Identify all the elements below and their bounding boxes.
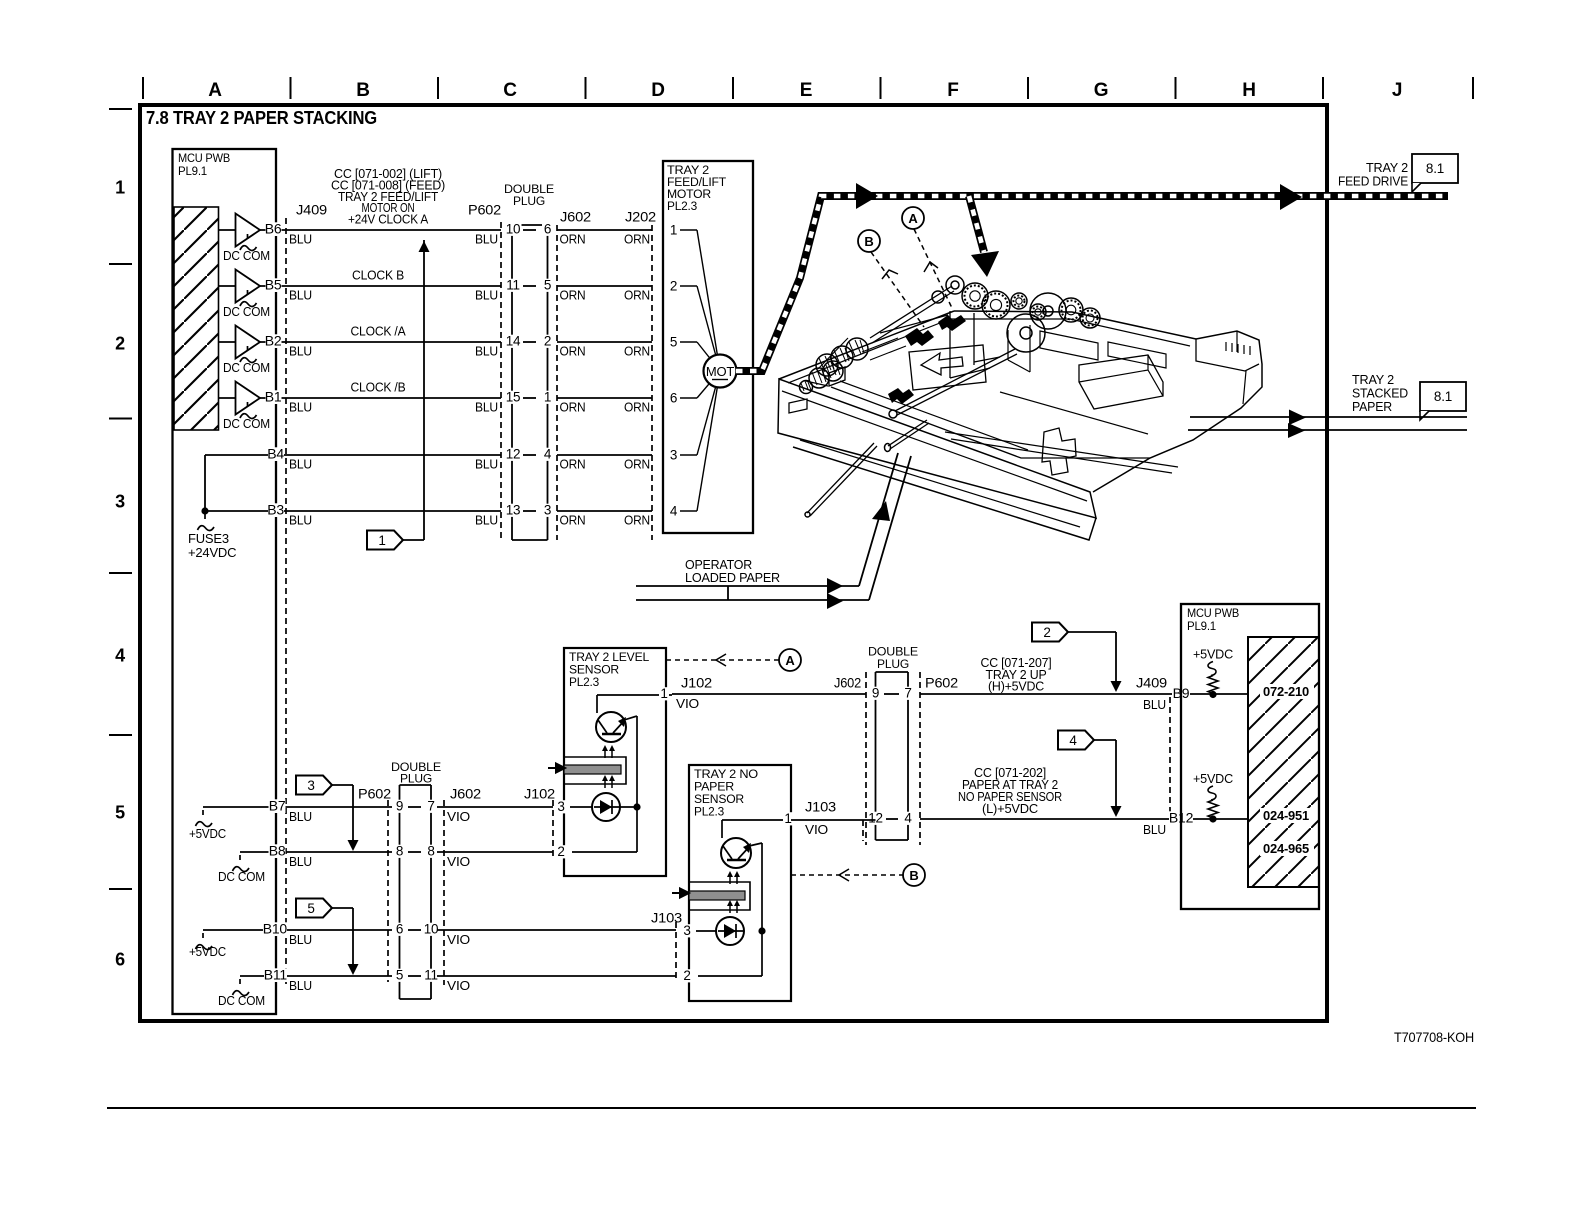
plug pin 9 xyxy=(870,687,881,700)
svg-text:8: 8 xyxy=(396,844,403,859)
svg-text:4: 4 xyxy=(115,646,125,666)
tray latch piece xyxy=(1042,428,1076,475)
tray 2 level sensor box xyxy=(564,648,666,876)
svg-text:MCU PWB: MCU PWB xyxy=(178,153,231,165)
svg-text:3: 3 xyxy=(683,923,690,938)
plug pin 4 xyxy=(903,812,914,825)
svg-text:TRAY 2: TRAY 2 xyxy=(667,165,709,177)
dashed leader from no paper sensor to B xyxy=(791,874,903,876)
svg-text:PL2.3: PL2.3 xyxy=(569,677,599,689)
svg-text:B6: B6 xyxy=(265,221,282,237)
tray engraved arrow plate xyxy=(909,345,986,390)
svg-text:CLOCK /B: CLOCK /B xyxy=(351,380,406,395)
svg-text:7: 7 xyxy=(904,686,911,701)
no paper sensor internal wire xyxy=(761,843,763,976)
svg-text:BLU: BLU xyxy=(475,400,498,415)
svg-text:8.1: 8.1 xyxy=(1426,161,1444,176)
belt arrowhead down at tray xyxy=(971,251,999,277)
svg-text:+5VDC: +5VDC xyxy=(1193,647,1233,662)
svg-text:J409: J409 xyxy=(1136,675,1167,691)
svg-text:PL2.3: PL2.3 xyxy=(694,807,724,819)
svg-text:2: 2 xyxy=(557,844,564,859)
level sensor pin 1 wire xyxy=(597,694,672,696)
svg-text:14: 14 xyxy=(506,334,521,349)
connector J602 dashed (right) xyxy=(865,672,867,845)
row grid tick marks xyxy=(109,108,132,110)
svg-text:DC COM: DC COM xyxy=(218,993,265,1008)
svg-text:+24V CLOCK A: +24V CLOCK A xyxy=(348,213,429,227)
wire ORN row 2 xyxy=(557,285,652,287)
flow path diagonal (lower) xyxy=(869,456,911,600)
svg-text:BLU: BLU xyxy=(289,809,312,824)
wire B7 BLU xyxy=(292,806,392,808)
pin label B6 xyxy=(266,222,282,236)
level sensor pin 2 xyxy=(556,845,566,858)
svg-text:1: 1 xyxy=(544,390,551,405)
svg-text:FEED DRIVE: FEED DRIVE xyxy=(1338,174,1408,189)
double plug pins 9-7 xyxy=(394,800,405,813)
MCU PWB PL9.1 box (right) xyxy=(1181,604,1319,909)
no paper sensor pin 3 xyxy=(682,924,692,937)
wire ORN row 1 xyxy=(557,229,652,231)
footer rule line xyxy=(107,1107,1476,1109)
belt arrow 2 xyxy=(1280,184,1302,210)
connector J602 dashed line (upper) xyxy=(556,225,558,540)
svg-text:ORN: ORN xyxy=(624,513,650,528)
double plug pins 6-10 xyxy=(394,923,405,936)
svg-text:+5VDC: +5VDC xyxy=(189,826,226,841)
tray left rim xyxy=(779,311,954,379)
flag 3 (tray 2 up return) xyxy=(296,776,332,795)
svg-text:3: 3 xyxy=(307,778,314,793)
svg-text:FUSE3: FUSE3 xyxy=(188,531,229,546)
svg-text:ORN: ORN xyxy=(560,344,586,359)
svg-text:J: J xyxy=(1392,80,1402,101)
leader dashed line B xyxy=(871,252,924,327)
wire B4 BLU xyxy=(205,454,501,456)
leader dashed line A xyxy=(914,229,952,308)
drop wire from flag 2 xyxy=(1115,632,1117,687)
tray right raised box xyxy=(1079,355,1163,409)
pin label B9 xyxy=(1172,687,1190,701)
svg-text:PL2.3: PL2.3 xyxy=(667,201,697,213)
svg-text:12: 12 xyxy=(506,447,521,462)
stacked paper flow lines xyxy=(1190,416,1467,418)
svg-text:024-965: 024-965 xyxy=(1263,842,1309,856)
main diagram border frame xyxy=(140,105,1327,1021)
svg-text:PLUG: PLUG xyxy=(877,657,909,671)
svg-text:PLUG: PLUG xyxy=(400,772,432,786)
belt branch down to tray xyxy=(969,196,984,252)
drop wire from flag 5 xyxy=(352,908,354,972)
svg-text:2: 2 xyxy=(115,334,125,354)
svg-text:072-210: 072-210 xyxy=(1263,685,1309,699)
drop wire from flag 3 xyxy=(352,785,354,848)
svg-text:PAPER: PAPER xyxy=(1352,399,1392,414)
stacked paper arrows xyxy=(1289,410,1306,426)
double plug pins 10-6 xyxy=(505,223,522,236)
svg-text:10: 10 xyxy=(424,922,439,937)
no paper sensor pin 2 xyxy=(682,969,692,982)
svg-text:B1: B1 xyxy=(265,389,282,405)
svg-text:VIO: VIO xyxy=(805,822,828,837)
arrowhead up into B6 wire xyxy=(419,241,430,252)
level sensor pin2 internal wire xyxy=(572,851,637,853)
svg-text:BLU: BLU xyxy=(1143,697,1166,712)
MCU PWB hatched area xyxy=(174,207,219,430)
svg-text:5: 5 xyxy=(396,968,403,983)
svg-text:BLU: BLU xyxy=(475,344,498,359)
motor pin 2 xyxy=(680,285,697,287)
svg-text:BLU: BLU xyxy=(289,978,312,993)
wire VIO to J103 pin3 xyxy=(437,929,676,931)
tray 2 feed drive flow path (checkered belt) xyxy=(736,196,1448,371)
tray interior rib lines xyxy=(800,440,1080,527)
connector P602 dashed line (upper) xyxy=(500,222,502,540)
tray 2 feed/lift motor box xyxy=(663,161,753,533)
level sensor pin 3 xyxy=(556,800,566,813)
double plug pins 14-2 xyxy=(505,335,522,348)
level sensor photo-interrupter bar xyxy=(564,757,626,784)
svg-text:E: E xyxy=(800,80,812,101)
svg-text:A: A xyxy=(208,80,222,101)
svg-text:B2: B2 xyxy=(265,333,282,349)
junction node FUSE3 xyxy=(201,507,208,514)
reference tag 8.1 (stacked paper) xyxy=(1420,382,1466,411)
svg-text:(H)+5VDC: (H)+5VDC xyxy=(988,680,1044,694)
wire VIO no paper sensor pin1 xyxy=(791,819,876,821)
svg-text:SENSOR: SENSOR xyxy=(569,665,619,677)
svg-text:A: A xyxy=(785,653,795,668)
pin label B1 xyxy=(266,390,282,404)
DC COM at B8 xyxy=(240,851,292,853)
svg-text:B11: B11 xyxy=(264,967,288,983)
flow arrows xyxy=(827,578,843,594)
flag 1 (+24V CLOCK A feed) xyxy=(367,531,403,550)
svg-text:B4: B4 xyxy=(267,446,284,462)
svg-text:5: 5 xyxy=(307,901,314,916)
double plug pins 12-4 xyxy=(505,448,522,461)
svg-text:BLU: BLU xyxy=(289,932,312,947)
svg-text:1: 1 xyxy=(378,533,385,548)
svg-text:B5: B5 xyxy=(265,277,282,293)
svg-text:DC COM: DC COM xyxy=(223,416,270,431)
double plug pins 13-3 xyxy=(505,504,522,517)
svg-text:ORN: ORN xyxy=(560,457,586,472)
svg-text:A: A xyxy=(908,211,918,226)
no paper sensor LED diode xyxy=(716,917,744,945)
svg-text:J202: J202 xyxy=(625,209,656,225)
svg-text:PAPER: PAPER xyxy=(694,782,734,794)
svg-text:FEED/LIFT: FEED/LIFT xyxy=(667,177,726,189)
wire B10 BLU xyxy=(292,929,392,931)
pin label B7 xyxy=(269,799,286,813)
wire B1 BLU from MCU to P602 xyxy=(260,397,501,399)
+5VDC source at B10 xyxy=(203,929,292,931)
svg-text:4: 4 xyxy=(544,447,552,462)
svg-text:BLU: BLU xyxy=(289,457,312,472)
svg-text:B: B xyxy=(356,80,370,101)
svg-text:J409: J409 xyxy=(296,202,327,218)
DC COM return symbol at B6 xyxy=(240,234,257,251)
svg-text:3: 3 xyxy=(670,448,677,463)
tray 2 no paper sensor box xyxy=(689,765,791,1001)
svg-text:VIO: VIO xyxy=(676,696,699,711)
svg-text:8.1: 8.1 xyxy=(1434,389,1452,404)
svg-text:2: 2 xyxy=(670,279,677,294)
wire VIO level sensor pin1 to J602 xyxy=(672,693,866,695)
inner shaft to pickup xyxy=(895,349,1017,415)
svg-text:2: 2 xyxy=(1043,625,1050,640)
double plug pins 5-11 xyxy=(394,969,405,982)
svg-text:11: 11 xyxy=(424,968,438,983)
flag 5 (no paper return) xyxy=(296,899,332,918)
svg-text:ORN: ORN xyxy=(624,344,650,359)
double plug (right) bracket xyxy=(876,671,909,673)
svg-text:+5VDC: +5VDC xyxy=(189,944,226,959)
svg-text:9: 9 xyxy=(396,799,403,814)
svg-text:MCU PWB: MCU PWB xyxy=(1187,608,1240,620)
tray front wall xyxy=(778,379,1096,518)
svg-text:ORN: ORN xyxy=(624,288,650,303)
svg-text:PL9.1: PL9.1 xyxy=(178,166,207,178)
svg-text:3: 3 xyxy=(544,503,551,518)
connector J103 dashed xyxy=(675,922,677,982)
svg-text:B10: B10 xyxy=(263,921,288,937)
actuator arrow into level sensor xyxy=(548,764,565,773)
motor pin 1 xyxy=(680,229,697,231)
svg-text:4: 4 xyxy=(904,811,912,826)
connector J102 dashed xyxy=(552,800,554,860)
svg-text:BLU: BLU xyxy=(475,232,498,247)
tray center compartment edges xyxy=(1008,325,1030,372)
callout circle A (schematic) xyxy=(779,649,801,671)
svg-text:J102: J102 xyxy=(681,675,712,691)
wire BLU P602 to B12 xyxy=(920,818,1248,820)
motor MOT symbol xyxy=(704,355,737,388)
svg-text:BLU: BLU xyxy=(289,400,312,415)
svg-text:J602: J602 xyxy=(450,786,481,802)
pickup roller cluster xyxy=(846,338,868,360)
callout circle B xyxy=(858,230,880,252)
svg-text:4: 4 xyxy=(670,504,678,519)
level sensor phototransistor Q xyxy=(596,712,626,742)
svg-text:3: 3 xyxy=(557,799,564,814)
wire B5 BLU from MCU to P602 xyxy=(260,285,501,287)
arrowhead into B9 wire xyxy=(1111,681,1122,692)
motor pin 3 xyxy=(680,454,697,456)
motor pin 4 xyxy=(680,510,697,512)
DC COM return symbol at B5 xyxy=(240,290,257,307)
indicator rod upper xyxy=(888,420,929,449)
no paper sensor pin 1 xyxy=(783,812,793,825)
DC COM at B11 xyxy=(240,975,292,977)
pin label B3 xyxy=(268,503,284,517)
svg-text:BLU: BLU xyxy=(289,344,312,359)
tray 2 illustration xyxy=(778,276,1262,540)
tray base foot xyxy=(793,447,1096,540)
svg-text:ORN: ORN xyxy=(560,288,586,303)
no paper sensor pin2 internal wire xyxy=(698,975,762,977)
connector J409 dashed line (left) xyxy=(285,218,287,985)
flow path diagonal (upper) xyxy=(859,453,898,586)
svg-text:5: 5 xyxy=(115,803,125,823)
svg-text:D: D xyxy=(651,80,665,101)
connector P602 dashed (lower) xyxy=(387,800,389,982)
double plug (lower) bracket xyxy=(400,784,432,786)
indicator rod lower xyxy=(807,443,877,516)
wire B11 BLU xyxy=(292,975,392,977)
svg-text:B: B xyxy=(864,234,873,249)
svg-text:TRAY 2 NO: TRAY 2 NO xyxy=(694,769,758,781)
buffer driver for B6 xyxy=(218,229,236,231)
operator loaded paper flow path xyxy=(636,585,859,587)
svg-text:J602: J602 xyxy=(560,209,591,225)
svg-text:BLU: BLU xyxy=(289,513,312,528)
svg-text:9: 9 xyxy=(872,686,879,701)
DC COM return symbol at B1 xyxy=(240,402,257,419)
svg-text:PLUG: PLUG xyxy=(513,194,545,208)
tray rail comb teeth xyxy=(1226,342,1250,355)
svg-text:B8: B8 xyxy=(269,843,286,859)
svg-text:+24VDC: +24VDC xyxy=(188,545,236,560)
svg-text:1: 1 xyxy=(660,686,667,701)
svg-text:6: 6 xyxy=(670,391,677,406)
level sensor pin 1 xyxy=(659,687,669,700)
svg-text:J103: J103 xyxy=(805,799,836,815)
connector J103 dashed (pin1) xyxy=(862,820,864,841)
wire ORN row 6 xyxy=(557,510,652,512)
tray inner tower xyxy=(950,311,1000,378)
buffer driver for B2 xyxy=(218,341,236,343)
svg-text:7: 7 xyxy=(427,799,434,814)
wire ORN row 5 xyxy=(557,454,652,456)
svg-text:4: 4 xyxy=(1069,733,1077,748)
svg-text:J103: J103 xyxy=(651,910,682,926)
svg-text:LOADED PAPER: LOADED PAPER xyxy=(685,571,780,585)
svg-text:5: 5 xyxy=(670,335,677,350)
svg-text:ORN: ORN xyxy=(624,457,650,472)
svg-text:BLU: BLU xyxy=(475,288,498,303)
svg-text:7.8 TRAY 2 PAPER STACKING: 7.8 TRAY 2 PAPER STACKING xyxy=(146,107,377,128)
svg-text:13: 13 xyxy=(506,503,521,518)
wire B3 BLU xyxy=(205,510,501,512)
tray back rim xyxy=(954,311,1196,339)
pin label B11 xyxy=(264,968,287,982)
level sensor junction dot xyxy=(633,803,640,810)
svg-text:5: 5 xyxy=(544,278,551,293)
pin label B12 xyxy=(1169,811,1193,825)
tray back compartment quads xyxy=(1040,331,1098,360)
svg-text:T707708-KOH: T707708-KOH xyxy=(1394,1029,1474,1045)
wire VIO to J103 pin2 xyxy=(437,975,676,977)
actuator arrow into no paper sensor xyxy=(672,889,689,898)
svg-text:ORN: ORN xyxy=(560,513,586,528)
FUSE3 +24VDC source symbol xyxy=(198,514,215,531)
svg-text:ORN: ORN xyxy=(624,400,650,415)
drop wire from flag 4 xyxy=(1115,740,1117,812)
svg-text:1: 1 xyxy=(670,223,677,238)
svg-text:MOT: MOT xyxy=(706,364,735,379)
gear train xyxy=(962,283,988,309)
MCU PWB hatched area (right) xyxy=(1248,637,1319,887)
svg-text:ORN: ORN xyxy=(560,400,586,415)
callout circle B (schematic) xyxy=(903,864,925,886)
svg-text:PL9.1: PL9.1 xyxy=(1187,621,1216,633)
svg-text:H: H xyxy=(1242,80,1256,101)
motor pin 5 xyxy=(680,341,697,343)
tray rim tabs xyxy=(829,367,845,386)
svg-text:CLOCK B: CLOCK B xyxy=(352,268,404,283)
svg-text:ORN: ORN xyxy=(560,232,586,247)
light arrows xyxy=(604,749,606,758)
svg-text:12: 12 xyxy=(868,811,883,826)
dashed leader from level sensor to A xyxy=(666,659,779,661)
pin label B5 xyxy=(266,278,282,292)
buffer driver for B5 xyxy=(218,285,236,287)
paper actuator dark piece xyxy=(888,388,914,404)
svg-text:P602: P602 xyxy=(468,202,501,218)
svg-text:TRAY 2 LEVEL: TRAY 2 LEVEL xyxy=(569,652,650,664)
svg-text:2: 2 xyxy=(544,334,551,349)
reference tag 8.1 (feed drive) xyxy=(1412,154,1458,183)
pin label B2 xyxy=(266,334,282,348)
svg-text:BLU: BLU xyxy=(289,288,312,303)
wire from flag 1 xyxy=(403,539,424,541)
svg-text:1: 1 xyxy=(784,811,791,826)
svg-text:B3: B3 xyxy=(267,502,284,518)
svg-text:P602: P602 xyxy=(358,786,391,802)
connector J409 dashed (right) xyxy=(1169,697,1171,816)
svg-text:P602: P602 xyxy=(925,675,958,691)
plug pin 7 xyxy=(903,687,914,700)
double plug pins 8-8 xyxy=(394,845,405,858)
svg-text:CLOCK /A: CLOCK /A xyxy=(351,324,406,339)
svg-text:2: 2 xyxy=(683,968,690,983)
MCU PWB PL9.1 box (left) xyxy=(173,149,277,1014)
svg-text:B: B xyxy=(909,868,918,883)
no paper sensor photo-interrupter bar xyxy=(689,882,750,910)
svg-text:SENSOR: SENSOR xyxy=(694,794,744,806)
wire BLU P602 to B9 xyxy=(920,693,1248,695)
svg-text:MOTOR: MOTOR xyxy=(667,189,711,201)
svg-text:F: F xyxy=(947,80,958,101)
flag 2 (tray 2 up signal) xyxy=(1032,623,1068,642)
no paper sensor phototransistor Q xyxy=(721,838,751,868)
svg-text:VIO: VIO xyxy=(447,809,470,824)
roller shaft xyxy=(870,286,954,343)
svg-text:VIO: VIO xyxy=(447,978,470,993)
column grid tick marks xyxy=(142,77,144,99)
buffer driver for B1 xyxy=(218,397,236,399)
callout circle A xyxy=(902,207,924,229)
drive discs xyxy=(1007,314,1045,352)
svg-text:ORN: ORN xyxy=(624,232,650,247)
double plug pins 11-5 xyxy=(505,279,522,292)
svg-text:6: 6 xyxy=(115,950,125,970)
wire VIO to J102 pin3 xyxy=(437,806,553,808)
svg-text:VIO: VIO xyxy=(447,854,470,869)
connector J202 dashed line xyxy=(651,225,653,540)
svg-text:J102: J102 xyxy=(524,786,555,802)
svg-text:024-951: 024-951 xyxy=(1263,809,1309,823)
svg-text:J602: J602 xyxy=(834,675,861,691)
riser wire +24V CLOCK A xyxy=(423,240,425,540)
svg-text:BLU: BLU xyxy=(289,232,312,247)
wire ORN row 4 xyxy=(557,397,652,399)
pin label B4 xyxy=(268,447,284,461)
svg-text:DC COM: DC COM xyxy=(223,304,270,319)
